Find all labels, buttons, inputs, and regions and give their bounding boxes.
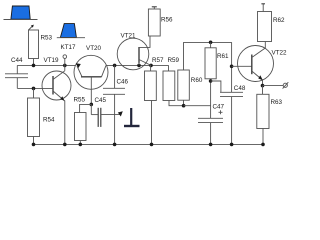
node VT21 emitter / R57 bbox=[149, 64, 153, 68]
svg-text:C47: C47 bbox=[213, 103, 225, 110]
svg-text:R55: R55 bbox=[74, 96, 86, 103]
resistor R63 bbox=[257, 86, 269, 145]
node R59/R60 bbox=[182, 104, 186, 108]
svg-text:C44: C44 bbox=[11, 57, 23, 64]
node rail R54 bbox=[32, 143, 36, 147]
resistor R59 bbox=[163, 65, 184, 105]
node rail C47 bbox=[209, 143, 213, 147]
wire emitter to output terminal bbox=[263, 85, 284, 87]
node rail R63 bbox=[261, 143, 265, 147]
output terminal bbox=[283, 82, 289, 88]
node R61 top bbox=[209, 41, 213, 45]
wire base y88.4 bbox=[17, 87, 53, 89]
capacitor C46 bbox=[103, 65, 125, 144]
node rail C48 bbox=[230, 143, 234, 147]
bottom rail bbox=[34, 143, 265, 145]
capacitor C45 bbox=[91, 104, 119, 127]
svg-text:R53: R53 bbox=[41, 35, 53, 42]
wire VT22 base bbox=[232, 65, 252, 67]
transistor VT19 bbox=[42, 65, 71, 101]
node input terminal bbox=[63, 64, 67, 68]
top rail bbox=[183, 41, 231, 43]
wire main right segment bbox=[106, 64, 169, 66]
capacitor C48 bbox=[220, 42, 243, 144]
node rail R55 bbox=[79, 143, 83, 147]
capacitor C47 bbox=[198, 118, 223, 144]
wire VT19 emitter down bbox=[64, 101, 66, 145]
node base/R54 bbox=[32, 87, 36, 91]
chassis point symbol bbox=[124, 108, 140, 126]
resistor R53 bbox=[29, 30, 39, 65]
resistor R55 bbox=[75, 104, 92, 144]
svg-text:C46: C46 bbox=[117, 78, 129, 85]
resistor R57 bbox=[145, 65, 157, 144]
resistor R54 bbox=[28, 88, 40, 144]
wire R61 to C48 bbox=[211, 81, 221, 92]
svg-text:R57: R57 bbox=[152, 57, 164, 64]
terminal KT17 bbox=[63, 55, 67, 66]
resistor R61 bbox=[205, 42, 216, 118]
node VT22 emitter bbox=[261, 84, 265, 88]
node R61 bottom bbox=[209, 79, 213, 83]
node VT22 base bbox=[230, 65, 234, 69]
svg-text:R61: R61 bbox=[217, 53, 229, 60]
waveform pulse 1 (input oscillogram) bbox=[4, 6, 38, 20]
arrow above R53 bbox=[29, 25, 34, 30]
svg-text:C48: C48 bbox=[234, 85, 246, 92]
node VT21 base bbox=[137, 64, 141, 68]
capacitor C44 bbox=[5, 65, 28, 88]
svg-text:C45: C45 bbox=[95, 97, 107, 104]
node rail VT19 emitter bbox=[63, 143, 67, 147]
arrow probe bbox=[118, 111, 123, 116]
wire main left segment bbox=[17, 64, 76, 66]
svg-text:R63: R63 bbox=[271, 99, 283, 106]
svg-text:KT17: KT17 bbox=[61, 44, 77, 51]
svg-text:VT21: VT21 bbox=[121, 32, 137, 39]
wire to C47 line bbox=[184, 105, 211, 107]
svg-text:R59: R59 bbox=[168, 57, 180, 64]
svg-text:R56: R56 bbox=[161, 17, 173, 24]
transistor VT22 bbox=[238, 42, 274, 86]
transistor VT20 bbox=[74, 55, 108, 104]
node rail R57 bbox=[150, 143, 154, 147]
svg-text:R62: R62 bbox=[273, 17, 285, 24]
resistor R62 bbox=[258, 4, 272, 42]
node R53/wire bbox=[32, 64, 36, 68]
transistor VT21 bbox=[117, 36, 151, 70]
resistor R60 bbox=[178, 42, 190, 105]
node VT20 base bbox=[90, 103, 94, 107]
node rail C46 bbox=[113, 143, 117, 147]
svg-text:VT19: VT19 bbox=[44, 57, 60, 64]
svg-text:R54: R54 bbox=[43, 117, 55, 124]
svg-text:VT20: VT20 bbox=[86, 45, 102, 52]
waveform pulse 2 (KT17 oscillogram) bbox=[57, 24, 85, 38]
svg-text:VT22: VT22 bbox=[272, 49, 288, 56]
svg-text:R60: R60 bbox=[191, 77, 203, 84]
resistor R56 bbox=[148, 7, 160, 36]
plus mark C47 bbox=[219, 110, 223, 114]
node C46 bbox=[113, 64, 117, 68]
